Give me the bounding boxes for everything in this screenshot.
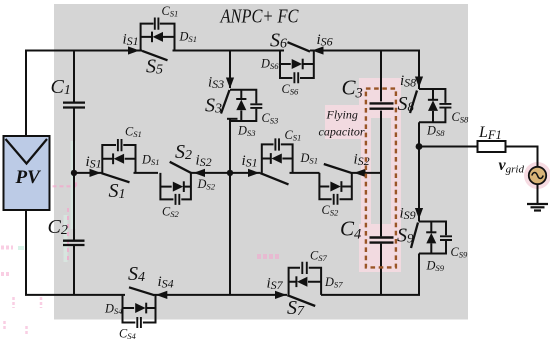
faint compression artifacts (ghost marks): [1, 141, 281, 334]
current arrow i_S2 (second leg): [354, 169, 366, 177]
wire: midpoint row segments: [74, 172, 381, 174]
snubber capacitor C_S3: [250, 104, 262, 108]
switch S6 cell: [260, 30, 333, 97]
svg-text:vgrid: vgrid: [499, 157, 525, 176]
svg-text:iS3: iS3: [208, 75, 224, 92]
snubber frame S7: [289, 268, 322, 295]
snubber frame (second leg upper): [262, 144, 293, 173]
switch S8 cell: [398, 73, 470, 138]
flying capacitor dashed box: [366, 89, 396, 268]
svg-text:Flying: Flying: [326, 108, 358, 122]
wire: top rail middle segment: [173, 50, 285, 52]
current arrow i_S1 (second leg): [248, 169, 260, 177]
snubber diode D_S1: [112, 153, 114, 164]
switch S2 blade: [170, 162, 192, 173]
switch S9 blade: [411, 223, 418, 249]
svg-text:PV: PV: [15, 167, 42, 188]
current arrow i_S2: [194, 169, 206, 177]
flying capacitor C3: [342, 76, 394, 109]
current arrow i_S1 (S5): [128, 46, 140, 54]
snubber capacitor C_S8: [439, 104, 451, 108]
snubber frame S3: [230, 90, 256, 121]
wire: bottom rail right segment: [321, 254, 419, 295]
svg-text:iS6: iS6: [317, 32, 333, 49]
snubber diode D_S7: [295, 276, 297, 287]
wire: S8-S9 leg between switches: [418, 122, 420, 221]
svg-text:LF1: LF1: [478, 124, 502, 142]
snubber frame S2: [160, 173, 191, 200]
snubber frame (second leg lower): [319, 173, 351, 199]
current arrow i_S6: [312, 46, 324, 54]
snubber capacitor C_S2 (second leg): [334, 194, 338, 205]
switch blade (second leg lower): [324, 164, 352, 173]
snubber frame S5: [141, 24, 175, 51]
switch S5 blade: [142, 51, 168, 61]
wire: dc-link branch through C1 and C2: [73, 51, 75, 295]
snubber frame S6: [280, 51, 314, 79]
current arrow i_S7: [275, 291, 287, 299]
switch S7 blade: [287, 295, 315, 306]
svg-text:iS1: iS1: [242, 153, 258, 170]
second-leg upper switch cell (S1 style): [242, 128, 318, 184]
PV source: [4, 136, 50, 210]
switch S5 cell: [123, 4, 197, 78]
snubber frame S4: [123, 295, 156, 323]
snubber capacitor C_S1: [118, 139, 122, 151]
snubber frame S8: [419, 89, 445, 122]
wire: PV positive to top rail: [26, 51, 142, 137]
svg-text:iS4: iS4: [158, 274, 174, 291]
second-leg lower switch cell (S2 style): [319, 152, 369, 218]
wire: filter to grid source: [506, 147, 538, 168]
snubber frame S9: [419, 222, 446, 254]
snubber diode D_S4: [145, 303, 147, 314]
switch S4 blade: [129, 287, 154, 295]
svg-text:iS1: iS1: [86, 154, 102, 171]
svg-text:capacitor: capacitor: [319, 125, 365, 139]
switch S2 cell: [160, 141, 215, 219]
flying capacitor pink highlight: [325, 78, 401, 272]
current arrow i_S1: [90, 169, 102, 177]
switch S4 cell: [104, 263, 174, 340]
wire: grid source to ground: [537, 184, 539, 204]
svg-text:iS2: iS2: [196, 153, 212, 170]
capacitor C1: [51, 76, 86, 108]
node: ac output junction: [416, 143, 423, 150]
svg-text:CS4: CS4: [119, 327, 137, 340]
snubber diode D_S3: [236, 98, 246, 100]
current arrow i_S8: [415, 77, 423, 88]
node: dc midpoint junction: [71, 170, 77, 176]
svg-text:ANPC+ FC: ANPC+ FC: [219, 6, 299, 28]
svg-text:iS7: iS7: [267, 276, 284, 293]
current arrow i_S3: [226, 78, 234, 89]
snubber diode D_S8: [428, 99, 438, 101]
wire: S3 leg vertical: [227, 51, 238, 295]
current arrow i_S9: [415, 208, 423, 219]
snubber capacitor C_S7: [302, 262, 307, 274]
snubber capacitor C_S1 (S5): [155, 18, 159, 30]
switch blade (second leg upper): [261, 173, 289, 184]
snubber frame S1: [102, 145, 135, 173]
ground: [527, 204, 548, 211]
snubber diode D_S6: [302, 59, 304, 70]
switch S6 blade: [288, 42, 311, 51]
switch S3 cell: [205, 75, 278, 139]
switch S8 blade: [410, 91, 417, 114]
svg-text:iS8: iS8: [400, 73, 416, 90]
flying capacitor annotation: [319, 108, 365, 139]
switch S1 blade: [102, 173, 130, 182]
snubber capacitor C_S9: [440, 236, 452, 240]
snubber diode D_S2: [183, 181, 185, 192]
wire: bottom rail middle segment: [154, 294, 287, 296]
current arrow i_S4: [156, 291, 168, 299]
grid voltage source v_grid: [499, 157, 547, 184]
pink halo behind grid source: [524, 162, 550, 189]
snubber capacitor C_S1 (second leg): [275, 138, 279, 150]
svg-text:iS2: iS2: [354, 152, 370, 169]
inductor L_F1: [478, 124, 506, 152]
switch S3 blade: [221, 90, 230, 114]
flying capacitor C4: [340, 217, 394, 243]
svg-text:iS9: iS9: [400, 206, 416, 223]
snubber diode D_S1 (second leg): [270, 153, 272, 164]
wire: PV negative down to bottom rail: [26, 210, 125, 295]
wire: ac output to filter: [419, 146, 478, 148]
snubber capacitor C_S6: [294, 72, 298, 83]
svg-text:iS1: iS1: [123, 32, 139, 49]
converter background panel: [54, 4, 468, 320]
capacitor C2: [48, 216, 85, 245]
snubber diode (second leg lower): [340, 181, 342, 192]
snubber diode D_S9: [426, 231, 436, 233]
wire: top rail right segment with corner down to S8: [310, 51, 419, 90]
snubber capacitor C_S4: [137, 317, 141, 328]
wire: flying capacitor leg vertical: [380, 51, 382, 295]
switch S9 cell: [397, 206, 468, 274]
snubber diode D_S1 (S5): [151, 32, 153, 43]
node: S3 leg midpoint junction: [227, 170, 233, 176]
snubber capacitor C_S2: [176, 194, 180, 205]
switch S1 cell: [86, 125, 160, 203]
switch S7 cell: [267, 249, 344, 320]
